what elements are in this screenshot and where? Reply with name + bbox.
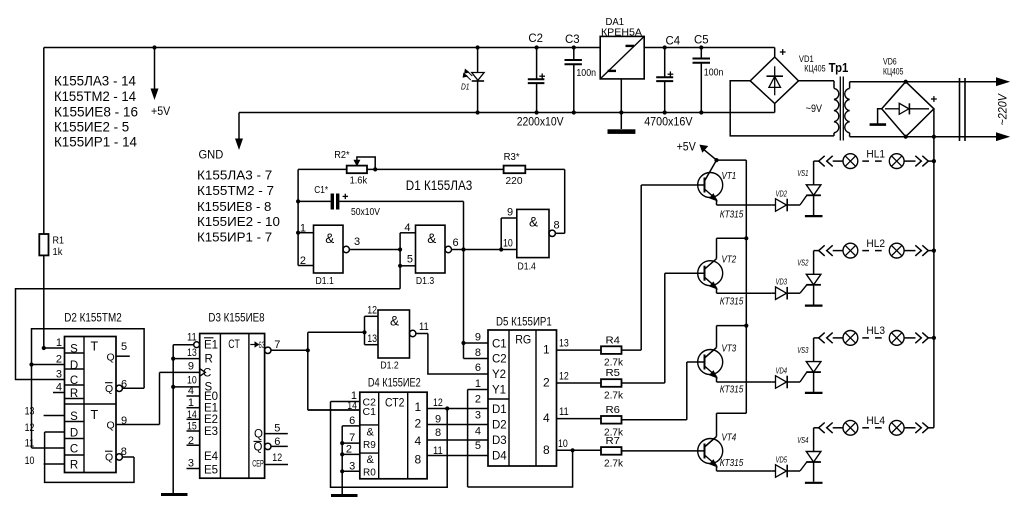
- wire D2 pin12: [25, 422, 65, 434]
- svg-text:4: 4: [188, 385, 194, 397]
- bridge rectifier VD1: [750, 48, 825, 113]
- svg-text:VD1: VD1: [799, 54, 814, 64]
- svg-text:2: 2: [188, 435, 194, 447]
- wire D5 C1 C2 clock: [464, 332, 489, 360]
- svg-text:T: T: [91, 408, 99, 422]
- transistor VT3: [698, 326, 772, 396]
- svg-text:Q: Q: [254, 429, 263, 441]
- svg-text:VT2: VT2: [722, 255, 737, 266]
- ground of D3: [161, 493, 188, 496]
- svg-text:СЕР: СЕР: [252, 459, 264, 469]
- svg-text:2: 2: [56, 354, 62, 366]
- svg-text:&: &: [325, 231, 334, 246]
- svg-text:8: 8: [435, 427, 441, 439]
- svg-text:КТ315: КТ315: [720, 210, 744, 221]
- svg-text:C: C: [70, 375, 78, 387]
- svg-text:12: 12: [25, 422, 35, 434]
- labels D5 data pins: [475, 394, 481, 453]
- lamp chain HL2: [814, 238, 934, 258]
- wire lamp + rail: [932, 109, 936, 428]
- svg-text:T: T: [91, 340, 99, 354]
- regulator DA1: [600, 16, 644, 79]
- svg-text:+5V: +5V: [151, 106, 170, 118]
- resistor R7: [601, 435, 705, 469]
- svg-text:1: 1: [415, 400, 422, 414]
- svg-text:D4 К155ИЕ2: D4 К155ИЕ2: [368, 375, 421, 389]
- svg-text:R: R: [205, 354, 213, 366]
- svg-text:Y2: Y2: [492, 369, 506, 381]
- capacitor C2: [528, 31, 545, 114]
- transformer Tr1: [806, 61, 850, 141]
- pin D3 Q-bar output: [254, 436, 288, 454]
- svg-text:GND: GND: [199, 150, 224, 162]
- svg-text:1: 1: [188, 397, 194, 409]
- svg-text:S: S: [70, 344, 78, 356]
- svg-text:3: 3: [354, 236, 360, 248]
- svg-text:6: 6: [453, 237, 459, 249]
- svg-text:К155ИР1 - 7: К155ИР1 - 7: [197, 230, 272, 245]
- svg-text:15: 15: [187, 421, 197, 433]
- diode VD4: [771, 366, 800, 389]
- lamp chain HL1: [814, 148, 934, 168]
- svg-text:E2: E2: [204, 414, 218, 426]
- gate D1.4: [501, 169, 565, 272]
- thyristor VS1: [797, 161, 822, 216]
- transistor VT4: [698, 413, 772, 471]
- svg-text:S: S: [70, 411, 78, 423]
- svg-text:6: 6: [475, 362, 481, 374]
- svg-text:11: 11: [559, 406, 569, 418]
- svg-text:VT4: VT4: [722, 432, 737, 443]
- wire D5 out2: [557, 371, 602, 384]
- svg-text:D: D: [70, 360, 78, 372]
- svg-text:7: 7: [349, 432, 355, 444]
- capacitor C1: [298, 184, 463, 218]
- wire D2 pin2: [32, 354, 65, 366]
- IC D4 K155IE2 box: [360, 375, 427, 478]
- wire R4 to transistor base: [641, 184, 704, 186]
- pin D2 pin4 stub: [53, 382, 65, 394]
- wire D2 Q2-bar feedback pin8: [45, 432, 134, 482]
- svg-text:10: 10: [25, 455, 35, 467]
- svg-text:К155ТМ2 - 7: К155ТМ2 - 7: [197, 183, 274, 198]
- svg-text:VS1: VS1: [797, 168, 808, 178]
- svg-text:2: 2: [415, 417, 422, 431]
- svg-text:7: 7: [274, 339, 280, 351]
- svg-text:VD6: VD6: [883, 57, 897, 67]
- wire GND bottom rail: [239, 112, 775, 114]
- svg-text:3: 3: [56, 369, 62, 381]
- svg-text:8: 8: [554, 220, 560, 232]
- IC D5 K155IR1 box: [488, 315, 557, 467]
- svg-text:C1*: C1*: [314, 184, 328, 196]
- svg-text:11: 11: [433, 445, 443, 457]
- svg-text:9: 9: [507, 207, 513, 219]
- wire VT collector +5V rail: [717, 160, 749, 413]
- svg-text:C1: C1: [363, 406, 377, 418]
- pin D3 Q output: [254, 423, 288, 441]
- svg-text:5: 5: [407, 254, 413, 266]
- thyristor VS2: [797, 251, 822, 306]
- node +5V arrow at VT1: [677, 142, 719, 163]
- svg-text:13: 13: [367, 333, 377, 345]
- svg-text:Тр1: Тр1: [829, 61, 849, 75]
- svg-text:D: D: [70, 428, 78, 440]
- IC D2 K155TM2 box: [64, 311, 122, 473]
- diode VD2: [771, 189, 800, 212]
- wire D4 out8 to D5 D4: [427, 445, 488, 457]
- resistor R6: [601, 362, 687, 438]
- svg-text:2: 2: [346, 444, 352, 456]
- svg-text:2: 2: [475, 394, 481, 406]
- svg-text:D1.3: D1.3: [416, 275, 434, 287]
- ground of DA1: [608, 79, 636, 134]
- LED D1: [461, 45, 484, 114]
- svg-text:63: 63: [259, 340, 266, 350]
- svg-text:КТ315: КТ315: [720, 458, 744, 469]
- svg-text:СТ2: СТ2: [385, 396, 405, 410]
- svg-text:E4: E4: [204, 451, 219, 463]
- svg-text:VD3: VD3: [776, 277, 788, 287]
- resistor R1: [39, 234, 64, 258]
- svg-text:100n: 100n: [704, 67, 724, 79]
- resistor R5: [601, 273, 665, 401]
- wire +5V top rail: [44, 47, 775, 49]
- svg-text:E1: E1: [204, 403, 218, 415]
- svg-text:К155ЛА3 - 14: К155ЛА3 - 14: [54, 74, 137, 89]
- svg-text:E0: E0: [204, 391, 218, 403]
- ground of D4: [331, 494, 358, 497]
- svg-text:5: 5: [475, 440, 481, 452]
- svg-text:14: 14: [187, 409, 197, 421]
- wire D5 Y1 recirculate: [468, 378, 488, 487]
- wire D2 pin11: [25, 438, 65, 450]
- svg-text:9: 9: [188, 361, 194, 373]
- svg-text:Q: Q: [254, 442, 263, 454]
- svg-text:КРЕН5А: КРЕН5А: [601, 26, 642, 38]
- svg-text:К155ИЕ8 - 8: К155ИЕ8 - 8: [197, 199, 271, 214]
- svg-text:VT1: VT1: [722, 171, 737, 182]
- svg-text:RG: RG: [515, 333, 531, 347]
- resistor R3: [504, 151, 565, 187]
- svg-text:Y1: Y1: [492, 385, 506, 397]
- svg-text:2: 2: [300, 255, 306, 267]
- text GND pin list: [197, 168, 280, 245]
- pin D3 CEP output: [252, 452, 288, 469]
- capacitor C4: [656, 34, 680, 115]
- svg-text:6: 6: [121, 379, 127, 391]
- svg-text:2: 2: [543, 376, 550, 390]
- svg-text:&: &: [367, 427, 375, 439]
- wire D2 Q1-bar feedback pin6: [29, 329, 144, 448]
- svg-text:&: &: [427, 231, 436, 246]
- svg-text:100n: 100n: [576, 67, 596, 79]
- svg-text:HL4: HL4: [866, 415, 885, 427]
- lamp chain HL4: [814, 415, 934, 435]
- svg-text:R4: R4: [606, 334, 621, 346]
- wire D5 out1: [557, 338, 602, 351]
- svg-text:R: R: [70, 460, 78, 472]
- pin D2 pin10 stub: [25, 455, 65, 467]
- svg-text:D1.2: D1.2: [380, 360, 398, 372]
- node +5V arrow: [151, 45, 170, 118]
- svg-text:6: 6: [274, 436, 280, 448]
- svg-text:R: R: [70, 388, 78, 400]
- wire left rail to R1 and D2 pin1: [43, 48, 45, 349]
- svg-text:R5: R5: [606, 367, 621, 379]
- svg-text:D2: D2: [492, 420, 507, 432]
- svg-text:11: 11: [419, 321, 429, 333]
- transistor VT1: [698, 160, 772, 220]
- lamp chain HL3: [814, 325, 934, 345]
- IC D3 K155IE8 box: [200, 310, 265, 478]
- svg-text:Q: Q: [107, 352, 115, 364]
- svg-text:CT: CT: [228, 337, 240, 351]
- svg-text:12: 12: [559, 371, 569, 383]
- wire D4 out2 to D5 D2: [427, 414, 488, 426]
- gate D1.2: [308, 305, 488, 375]
- svg-text:3: 3: [188, 458, 194, 470]
- svg-text:C1: C1: [492, 339, 507, 351]
- chassis ground at VD6: [870, 109, 887, 125]
- svg-text:C3: C3: [565, 32, 580, 46]
- svg-text:13: 13: [187, 347, 197, 359]
- svg-text:11: 11: [25, 438, 35, 450]
- svg-text:12: 12: [367, 305, 377, 317]
- svg-text:VD5: VD5: [776, 455, 788, 465]
- svg-text:R2*: R2*: [334, 149, 349, 161]
- svg-text:11: 11: [187, 332, 197, 344]
- svg-text:D1: D1: [492, 404, 507, 416]
- wire R6 to transistor base: [687, 361, 705, 363]
- wire D5 out4: [557, 406, 602, 419]
- capacitor C5: [693, 33, 724, 115]
- svg-text:4700x16V: 4700x16V: [644, 117, 693, 129]
- wire D4 out4 to D5 D3: [427, 427, 488, 440]
- svg-text:R1: R1: [53, 235, 65, 247]
- svg-text:VD2: VD2: [776, 189, 788, 199]
- svg-text:3: 3: [349, 461, 355, 473]
- svg-text:К155ИЕ8 - 16: К155ИЕ8 - 16: [54, 104, 138, 119]
- pins D3 enable stubs: [187, 385, 200, 470]
- svg-text:4: 4: [475, 426, 481, 438]
- svg-text:3: 3: [475, 410, 481, 422]
- svg-text:D4: D4: [492, 451, 507, 463]
- svg-text:&: &: [390, 314, 399, 329]
- svg-text:VD4: VD4: [776, 366, 788, 376]
- svg-text:КЦ405: КЦ405: [883, 66, 903, 76]
- svg-text:R9: R9: [363, 440, 376, 451]
- svg-text:КТ315: КТ315: [720, 385, 744, 396]
- svg-text:R3*: R3*: [504, 151, 520, 163]
- wire 220V bottom line: [850, 133, 1009, 141]
- svg-text:R0: R0: [363, 468, 376, 479]
- svg-text:Q: Q: [105, 452, 113, 464]
- svg-text:VS4: VS4: [797, 435, 808, 445]
- wire D4 C1 clock in: [308, 400, 360, 412]
- svg-text:D3 К155ИЕ8: D3 К155ИЕ8: [208, 310, 264, 324]
- wire D2 pin1: [42, 337, 65, 350]
- wire R5 to transistor base: [665, 272, 705, 274]
- svg-text:5: 5: [274, 423, 280, 435]
- svg-text:VS3: VS3: [797, 345, 808, 355]
- resistor R2 trimmer: [298, 149, 504, 187]
- svg-text:50x10V: 50x10V: [351, 206, 380, 218]
- capacitor C3: [565, 32, 597, 115]
- svg-text:1: 1: [56, 337, 62, 349]
- svg-text:E5: E5: [204, 465, 218, 477]
- svg-text:C2: C2: [492, 354, 507, 366]
- svg-text:D1: D1: [461, 82, 470, 92]
- text Vcc pin list: [54, 74, 138, 150]
- wire D4 reset bracket: [340, 415, 360, 494]
- svg-text:8: 8: [121, 446, 127, 458]
- svg-text:4: 4: [404, 222, 410, 234]
- wire clock net vertical: [461, 201, 465, 345]
- thyristor VS3: [797, 338, 822, 393]
- wire 220V top line: [850, 78, 1009, 86]
- pin D2 pin13 stub: [25, 406, 65, 418]
- svg-text:1: 1: [475, 378, 481, 390]
- bridge rectifier VD6: [882, 57, 937, 139]
- svg-text:C4: C4: [666, 34, 681, 48]
- svg-text:R6: R6: [606, 404, 621, 416]
- svg-text:14: 14: [347, 400, 357, 412]
- wire D3 gnd bracket: [171, 332, 200, 494]
- svg-text:HL1: HL1: [866, 148, 885, 160]
- wire D4 out1 to D5 D1: [427, 397, 488, 411]
- svg-text:D5 К155ИР1: D5 К155ИР1: [496, 315, 552, 329]
- svg-text:D2 К155ТМ2: D2 К155ТМ2: [64, 311, 122, 325]
- gate D1.1: [298, 223, 400, 288]
- wire oscillator to D2 clock: [16, 289, 401, 380]
- svg-text:1: 1: [300, 223, 306, 235]
- svg-text:C5: C5: [694, 33, 709, 47]
- svg-text:К155ТМ2 - 14: К155ТМ2 - 14: [54, 89, 137, 104]
- diode VD3: [771, 277, 800, 300]
- svg-text:+5V: +5V: [677, 142, 696, 154]
- svg-text:4: 4: [543, 411, 550, 425]
- svg-text:12: 12: [272, 452, 282, 464]
- wire D4 C2 feedback: [331, 390, 448, 487]
- resistor R4: [601, 185, 641, 369]
- svg-text:Q: Q: [105, 383, 113, 395]
- wire D3 pin7 output net: [265, 332, 360, 410]
- svg-text:2.7k: 2.7k: [604, 457, 624, 469]
- wire D2 pin3: [56, 369, 62, 381]
- svg-text:4: 4: [56, 382, 62, 394]
- transistor VT2: [698, 238, 772, 307]
- wire D3 clock in: [160, 371, 200, 373]
- svg-text:HL2: HL2: [866, 238, 885, 250]
- gate D1.3: [398, 222, 517, 289]
- svg-text:К155ИЕ2 - 10: К155ИЕ2 - 10: [197, 214, 280, 229]
- svg-text:2200x10V: 2200x10V: [517, 117, 564, 129]
- svg-text:4: 4: [415, 434, 422, 448]
- svg-text:5: 5: [121, 341, 127, 353]
- svg-text:~220V: ~220V: [996, 93, 1010, 125]
- thyristor VS4: [797, 428, 822, 483]
- svg-text:8: 8: [475, 347, 481, 359]
- svg-text:220: 220: [506, 175, 523, 187]
- connector plug bars: [960, 78, 966, 141]
- pin D2 pin5 stub: [116, 341, 130, 356]
- wire VD1 AC to transformer: [730, 81, 834, 136]
- svg-text:&: &: [529, 214, 538, 229]
- svg-text:9: 9: [435, 414, 441, 426]
- wire D5 out8: [557, 438, 602, 452]
- svg-text:VT3: VT3: [722, 344, 737, 355]
- svg-text:D1 К155ЛА3: D1 К155ЛА3: [406, 178, 473, 193]
- svg-text:9: 9: [475, 332, 481, 344]
- svg-text:К155ИЕ2 - 5: К155ИЕ2 - 5: [54, 120, 129, 135]
- svg-text:8: 8: [415, 453, 422, 467]
- svg-text:HL3: HL3: [866, 325, 885, 337]
- svg-text:КТ315: КТ315: [720, 297, 744, 308]
- svg-text:К155ЛА3 - 7: К155ЛА3 - 7: [197, 168, 272, 183]
- svg-text:1k: 1k: [53, 246, 64, 258]
- svg-text:D3: D3: [492, 435, 507, 447]
- wire D2 pin9 to D3 clock: [116, 372, 160, 427]
- svg-text:~9V: ~9V: [806, 103, 823, 115]
- wire D5 out8 feedback to Y1: [468, 450, 573, 487]
- svg-text:C: C: [70, 444, 78, 456]
- svg-text:12: 12: [433, 397, 443, 409]
- wire D1.1 input rail: [296, 169, 300, 265]
- svg-text:2.7k: 2.7k: [604, 390, 624, 402]
- svg-text:D1.4: D1.4: [518, 261, 536, 273]
- svg-text:10: 10: [558, 438, 568, 450]
- svg-text:VS2: VS2: [797, 258, 808, 268]
- svg-text:E1: E1: [204, 340, 218, 352]
- svg-text:C2: C2: [528, 31, 543, 45]
- svg-text:1.6k: 1.6k: [350, 175, 368, 187]
- svg-text:9: 9: [121, 415, 127, 427]
- diode VD5: [771, 455, 800, 478]
- svg-text:R7: R7: [606, 435, 621, 447]
- svg-text:8: 8: [543, 443, 550, 457]
- svg-text:Q: Q: [107, 420, 115, 432]
- svg-text:6: 6: [349, 415, 355, 427]
- svg-text:13: 13: [559, 338, 569, 350]
- svg-text:КЦ405: КЦ405: [804, 64, 825, 74]
- svg-text:D1.1: D1.1: [316, 275, 334, 287]
- svg-text:К155ИР1 - 14: К155ИР1 - 14: [54, 134, 138, 149]
- node GND arrow: [199, 113, 243, 162]
- svg-text:13: 13: [25, 406, 35, 418]
- svg-text:10: 10: [503, 238, 513, 250]
- svg-text:1: 1: [543, 343, 550, 357]
- svg-text:E3: E3: [204, 426, 218, 438]
- svg-text:&: &: [367, 454, 375, 466]
